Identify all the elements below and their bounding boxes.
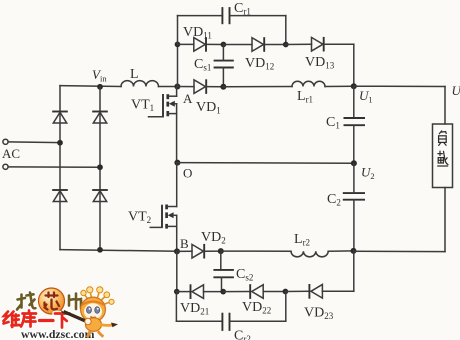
junction Cr2 right on VD row	[283, 289, 289, 295]
wire node A up to VD11 row	[177, 44, 179, 86]
diode VD12	[245, 37, 274, 71]
diode bridge upper-left	[52, 112, 68, 124]
capacitor Cr1	[222, 1, 250, 24]
wire bridge right branch	[99, 87, 101, 250]
junction Cs2 bottom on VD21 row	[220, 289, 226, 295]
wire top rail Vin to node A	[60, 85, 177, 88]
junction VD11 row left	[175, 42, 181, 48]
wire VD1 to Cs1 bottom junction	[206, 86, 223, 88]
wire U1 to load corner	[354, 86, 445, 124]
junction AC1 on left branch	[57, 140, 63, 146]
AC terminal 1	[3, 139, 60, 144]
wire bottom rail to load return	[354, 188, 446, 252]
diode VD2	[177, 230, 226, 259]
wire VD11 row segment 1	[178, 43, 194, 45]
wire Cr1 junction to VD13	[286, 43, 312, 45]
wire node O to U2	[177, 162, 354, 165]
junction bottom rail right	[351, 248, 357, 254]
capacitor Cr2	[222, 292, 285, 340]
junction VD21 row left	[174, 289, 180, 295]
node U2 junction	[351, 160, 375, 181]
inductor Lr1	[292, 81, 325, 104]
svg-text:AC: AC	[2, 146, 20, 161]
wire VD23 to right column	[322, 251, 353, 291]
wire VD11 to Cs1 junction	[206, 43, 223, 45]
wire VD21 row left down to Cr2	[176, 292, 222, 322]
load box (fuzai)	[433, 124, 453, 188]
capacitor Cs1	[194, 45, 234, 87]
junction AC2 on right branch	[97, 164, 103, 170]
svg-text:L: L	[130, 67, 139, 82]
svg-text:www.dzsc.com: www.dzsc.com	[21, 327, 95, 340]
wire Lr1 to U1	[325, 85, 354, 87]
wire A row to Lr1	[223, 86, 292, 88]
wire VD22 to Cr2 junction	[263, 291, 285, 293]
wire left column B to VD21 row	[176, 251, 178, 291]
wire bridge left branch	[59, 86, 61, 250]
diode VD23	[304, 284, 334, 321]
junction bridge bottom right	[97, 247, 103, 253]
junction Cr1 right on diode row	[283, 42, 289, 48]
diode VD1	[177, 79, 220, 115]
AC terminal 2	[3, 164, 100, 169]
diode VD22	[242, 284, 271, 315]
diode bridge upper-right	[92, 112, 108, 124]
diode VD11	[183, 25, 212, 52]
svg-text:B: B	[180, 236, 189, 251]
diode VD13	[305, 37, 335, 71]
wire VD2 to Cs2 junction	[204, 250, 221, 252]
svg-text:Uo: Uo	[452, 83, 460, 100]
wire Cr1 right lead	[230, 16, 286, 45]
capacitor Cs2	[213, 251, 253, 292]
wire B row to Lr2	[221, 250, 291, 252]
diode bridge lower-left	[52, 190, 68, 202]
junction Cs1 top	[221, 42, 227, 48]
diode bridge lower-right	[92, 190, 108, 202]
svg-text:O: O	[183, 166, 192, 181]
capacitor C2	[327, 163, 365, 251]
capacitor C1	[326, 86, 365, 163]
wire Lr2 to bottom right junction	[328, 250, 353, 252]
transistor VT2	[128, 163, 177, 252]
svg-text:A: A	[183, 91, 193, 106]
wire Cs2 junction to VD22	[223, 291, 250, 293]
wire VD13 to U1 column	[324, 44, 354, 86]
inductor Lr2	[291, 232, 328, 257]
junction Vin	[92, 67, 107, 90]
wire Cr2 junction to VD23	[285, 290, 309, 292]
junction Cs2 top on B row	[218, 248, 224, 254]
wire VD21 to Cs2 bottom junction	[204, 291, 224, 293]
node A junction	[174, 84, 193, 107]
transistor VT1	[131, 87, 177, 163]
wire Cr1 left lead	[178, 15, 223, 17]
node U1 junction	[351, 83, 373, 104]
wire VD12 to Cr1 junction	[264, 44, 286, 46]
junction Cs1 bottom on A row	[220, 84, 226, 90]
wire VD11 row left up to Cr1	[177, 16, 179, 45]
wire bottom rail bridge to node B	[60, 250, 177, 252]
inductor L	[121, 67, 159, 87]
watermark	[4, 287, 119, 340]
node B junction	[174, 236, 189, 254]
wire Cs1 junction to VD12	[223, 44, 252, 46]
node O junction	[174, 160, 192, 181]
diode VD21	[177, 284, 209, 316]
